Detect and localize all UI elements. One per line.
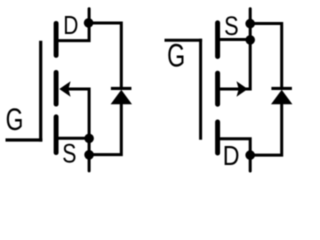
svg-text:D: D [63, 12, 78, 41]
svg-text:G: G [6, 101, 24, 137]
svg-text:D: D [223, 141, 240, 171]
svg-text:S: S [224, 12, 239, 42]
svg-text:G: G [167, 38, 185, 74]
svg-text:S: S [62, 140, 76, 170]
